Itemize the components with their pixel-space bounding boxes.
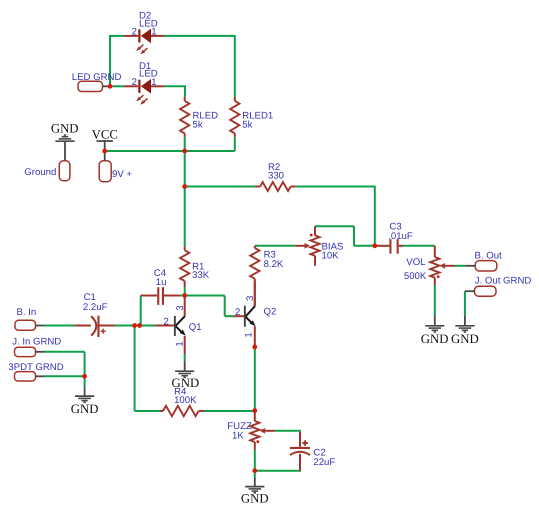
label D1: [139, 61, 158, 80]
svg-text:2: 2: [132, 77, 137, 88]
label R2: [268, 162, 284, 181]
pad LED GRND: [78, 81, 110, 91]
wire C3 right to VOL top: [403, 245, 435, 247]
wire D2 cathode to RLED1 top: [164, 35, 235, 97]
label C3: [388, 222, 413, 242]
wire Q1 collector node to Q2 base: [185, 296, 234, 317]
pad J.Out GRND: [465, 286, 496, 296]
wire LED GRND node to D1 anode: [110, 85, 124, 87]
svg-text:J. In GRND: J. In GRND: [12, 337, 61, 348]
wire 3PDT GRND to ground node: [45, 375, 85, 377]
svg-text:GND: GND: [241, 492, 269, 506]
svg-text:1: 1: [151, 77, 156, 88]
wire FUZZ bottom to node: [254, 450, 256, 471]
wire VOL wiper to B.Out: [455, 265, 465, 267]
junction node 10: [252, 345, 257, 350]
junction node 9: [372, 243, 377, 248]
svg-text:5k: 5k: [242, 120, 252, 131]
svg-text:1: 1: [151, 27, 156, 38]
label 3PDT GRND: [8, 362, 63, 373]
ground symbol under Q1: [172, 361, 200, 390]
wire ground node down: [84, 376, 86, 387]
resistor RLED 5k: [180, 97, 189, 137]
wire D1 cathode to RLED top: [164, 85, 185, 96]
svg-text:B. Out: B. Out: [475, 250, 503, 261]
svg-text:GND: GND: [421, 332, 449, 346]
svg-text:2.2uF: 2.2uF: [83, 302, 108, 313]
svg-text:GND: GND: [51, 122, 79, 136]
svg-text:22uF: 22uF: [313, 457, 335, 468]
pad J.In GRND: [15, 347, 45, 356]
wire J.In GRND to ground node: [45, 352, 85, 377]
wire B.In to C1: [45, 325, 76, 327]
capacitor C4 1u: [141, 287, 180, 305]
label J. In GRND: [12, 337, 61, 348]
pad 9V+: [99, 161, 132, 182]
ground symbol top-left: [51, 122, 79, 162]
wire BIAS top to C3 node: [315, 226, 375, 246]
pad Ground: [24, 161, 70, 181]
label Q1: [189, 322, 202, 333]
svg-text:330: 330: [268, 171, 284, 182]
label J. Out GRND: [475, 275, 532, 286]
svg-text:Q1: Q1: [189, 322, 202, 333]
label RLED1: [242, 110, 273, 130]
label R4: [174, 387, 197, 406]
label BIAS: [322, 241, 344, 261]
wire RLED bottom to VCC rail: [184, 137, 186, 151]
svg-text:5k: 5k: [193, 120, 203, 131]
resistor R4 100K: [160, 406, 204, 416]
wire base node down to R4: [135, 326, 160, 412]
junction node 1: [108, 84, 113, 89]
ground symbol under VOL: [421, 315, 449, 346]
svg-text:9V +: 9V +: [112, 169, 132, 180]
wire VOL bottom to ground: [434, 285, 436, 315]
wire Q2 emitter node down to FUZZ: [254, 347, 256, 411]
wire LED GRND node to D2 anode loop: [109, 36, 124, 86]
svg-text:10K: 10K: [322, 250, 340, 261]
label B. Out: [475, 250, 503, 261]
label R1: [192, 262, 210, 282]
svg-text:GND: GND: [451, 332, 479, 346]
ground symbol under J.Out GRND: [451, 315, 479, 346]
diode D2 LED: [124, 29, 164, 55]
pin numbers Q1: [163, 305, 186, 346]
junction node 4: [182, 184, 187, 189]
svg-text:2: 2: [132, 27, 137, 38]
svg-text:VCC: VCC: [92, 127, 118, 141]
label C1: [83, 292, 108, 313]
diode D1 LED: [124, 79, 164, 105]
capacitor C1 2.2uF: [75, 316, 114, 337]
transistor Q2: [233, 281, 255, 347]
junction node 7: [137, 323, 142, 328]
svg-text:1K: 1K: [232, 430, 244, 441]
label LED GRND: [72, 72, 122, 83]
wire R3 top to BIAS wiper: [255, 245, 296, 247]
label RLED: [193, 110, 219, 130]
svg-text:3: 3: [245, 296, 256, 301]
pin numbers D1: [132, 77, 157, 88]
label B. In: [17, 307, 37, 318]
wire C4 left branch down: [140, 296, 142, 326]
svg-text:33K: 33K: [192, 270, 210, 281]
label Q2: [264, 307, 277, 318]
svg-text:B. In: B. In: [17, 307, 37, 318]
junction node 6: [132, 323, 137, 328]
label C2: [313, 447, 335, 468]
svg-text:1u: 1u: [156, 277, 167, 288]
svg-text:J. Out GRND: J. Out GRND: [475, 275, 532, 286]
resistor RLED1 5k: [230, 97, 239, 137]
junction node 12: [252, 468, 257, 473]
svg-text:1: 1: [244, 332, 255, 337]
junction node 11: [252, 408, 257, 413]
svg-text:GND: GND: [71, 402, 99, 416]
svg-text:LED GRND: LED GRND: [72, 72, 122, 83]
pad 3PDT GRND: [15, 372, 45, 381]
transistor Q1: [156, 297, 186, 355]
potentiometer FUZZ 1K: [250, 412, 275, 450]
svg-text:3: 3: [175, 305, 186, 310]
label C4: [154, 268, 167, 288]
pin numbers Q2: [235, 296, 256, 338]
svg-text:GND: GND: [172, 376, 200, 390]
resistor R1 33K: [180, 247, 189, 287]
wire Q1 emitter to ground: [184, 355, 186, 362]
svg-text:VOL: VOL: [406, 257, 426, 268]
label D2: [139, 11, 158, 30]
svg-text:Ground: Ground: [24, 167, 56, 178]
pad B.In: [15, 320, 45, 330]
svg-text:Q2: Q2: [264, 307, 277, 318]
wire FUZZ wiper to C2 top: [275, 430, 301, 432]
label FUZZ: [227, 421, 252, 441]
junction node 8: [82, 374, 87, 379]
junction node 5: [182, 293, 187, 298]
pin numbers D2: [132, 27, 157, 38]
label VOL: [404, 257, 427, 282]
wire C4 right to node: [180, 295, 185, 297]
wire R2 right to C3 node: [295, 186, 375, 246]
ground symbol under 3PDT node: [71, 387, 99, 416]
svg-text:500K: 500K: [404, 271, 427, 282]
wire R1 bottom to node: [184, 287, 186, 296]
wire C1 to Q1 base: [115, 325, 156, 327]
capacitor C3 .01uF: [375, 239, 403, 254]
wire C2 bottom to node: [255, 470, 301, 472]
potentiometer VOL 500K: [430, 246, 454, 286]
svg-text:2: 2: [235, 307, 240, 318]
wire node to R2 left: [185, 186, 255, 188]
wire VCC rail down to R1: [184, 151, 186, 247]
wire RLED1 bottom to VCC rail: [234, 137, 236, 151]
wire node down to ground: [254, 471, 256, 478]
potentiometer BIAS 10K: [295, 226, 319, 266]
svg-text:3PDT GRND: 3PDT GRND: [8, 362, 63, 373]
ground symbol under FUZZ: [241, 478, 269, 506]
wire J.Out GRND down to ground: [464, 291, 466, 315]
svg-text:2: 2: [163, 316, 168, 327]
vcc symbol: [92, 127, 118, 160]
svg-text:8.2K: 8.2K: [264, 259, 284, 270]
label R3: [264, 250, 284, 270]
resistor R2 330: [255, 182, 295, 191]
resistor R3 8.2K: [250, 246, 259, 306]
junction node 3: [182, 149, 187, 154]
svg-text:1: 1: [174, 341, 185, 346]
wire R4 right to emitter node: [204, 410, 255, 412]
wire VCC rail: [105, 150, 235, 152]
pad B.Out: [465, 261, 497, 271]
capacitor C2 22uF: [290, 432, 310, 471]
junction node 2: [102, 149, 107, 154]
svg-text:.01uF: .01uF: [388, 231, 413, 242]
svg-text:100K: 100K: [174, 395, 197, 406]
